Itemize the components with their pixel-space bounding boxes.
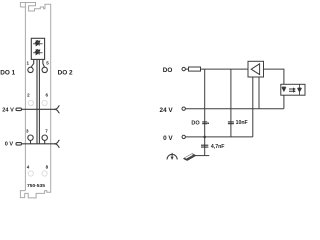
svg-text:10nF: 10nF <box>236 120 248 126</box>
svg-text:0 V: 0 V <box>5 141 14 147</box>
svg-text:8: 8 <box>46 164 49 169</box>
svg-text:0 V: 0 V <box>163 135 173 142</box>
svg-text:7: 7 <box>45 129 48 134</box>
svg-text:DO: DO <box>163 67 173 74</box>
svg-text:DO: DO <box>191 120 200 126</box>
svg-text:4: 4 <box>27 164 30 169</box>
svg-text:2: 2 <box>27 93 30 98</box>
svg-text:1: 1 <box>26 60 29 65</box>
svg-text:24 V: 24 V <box>2 108 14 114</box>
svg-text:DO 2: DO 2 <box>58 69 73 76</box>
svg-text:6: 6 <box>46 93 49 98</box>
svg-text:750-535: 750-535 <box>27 183 45 189</box>
svg-text:3: 3 <box>26 129 29 134</box>
svg-text:5: 5 <box>46 60 49 65</box>
svg-text:4,7nF: 4,7nF <box>211 144 225 150</box>
svg-text:24 V: 24 V <box>160 107 174 114</box>
svg-text:DO 1: DO 1 <box>0 69 15 76</box>
